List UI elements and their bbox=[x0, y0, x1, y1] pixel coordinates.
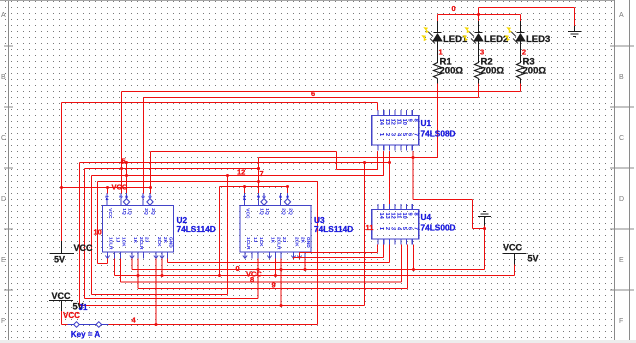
svg-text:1CLR: 1CLR bbox=[108, 237, 114, 250]
net label 12 bbox=[237, 168, 245, 177]
svg-text:1: 1 bbox=[439, 48, 443, 57]
svg-text:12: 12 bbox=[390, 119, 396, 125]
svg-text:14: 14 bbox=[378, 119, 384, 126]
IC U4 74LS00D bbox=[372, 204, 456, 244]
svg-text:F: F bbox=[619, 318, 623, 325]
net label 9 bbox=[272, 281, 276, 290]
svg-text:1Q: 1Q bbox=[121, 208, 127, 215]
switch J1 bbox=[62, 303, 109, 339]
svg-text:J1: J1 bbox=[79, 303, 88, 312]
svg-text:1CLR: 1CLR bbox=[245, 237, 251, 250]
net label 0 (bottom) bbox=[236, 264, 240, 273]
svg-text:U1: U1 bbox=[421, 118, 432, 128]
resistor R1 bbox=[434, 57, 464, 85]
power VCC3 (switch supply) bbox=[49, 291, 84, 325]
svg-text:10: 10 bbox=[94, 228, 102, 237]
svg-text:2J: 2J bbox=[281, 237, 287, 243]
wire net 6 (R3 to U2 clock) bbox=[122, 84, 521, 195]
svg-text:13: 13 bbox=[384, 119, 390, 125]
svg-text:1Q: 1Q bbox=[259, 208, 265, 215]
svg-text:3: 3 bbox=[390, 133, 396, 136]
svg-text:2J: 2J bbox=[144, 237, 150, 243]
net label 0 bbox=[452, 4, 456, 13]
IC U2 74LS114D bbox=[103, 193, 216, 259]
svg-text:A: A bbox=[1, 12, 6, 19]
wire net 0 ground rail (bottom) bbox=[132, 245, 485, 308]
svg-text:11: 11 bbox=[395, 213, 401, 219]
svg-text:GND: GND bbox=[168, 237, 174, 248]
wire U4 pin1 to U3 output bbox=[300, 245, 378, 259]
svg-text:2CLR: 2CLR bbox=[138, 237, 144, 250]
wire net 5 drop to U2 pin branch bbox=[364, 163, 366, 306]
svg-text:14: 14 bbox=[242, 196, 247, 201]
wire net 12 bbox=[85, 167, 261, 299]
svg-text:2K: 2K bbox=[300, 237, 306, 244]
net label 8 bbox=[250, 275, 254, 284]
ground GND1 bbox=[568, 26, 581, 37]
IC U1 74LS08D bbox=[372, 110, 456, 150]
svg-text:11: 11 bbox=[395, 119, 401, 125]
wire net 7 (R1 down to mid line) bbox=[257, 84, 438, 195]
svg-text:74LS114D: 74LS114D bbox=[177, 224, 216, 234]
svg-text:A: A bbox=[619, 12, 624, 19]
svg-text:7: 7 bbox=[412, 227, 418, 230]
power VCC1 5V bbox=[50, 241, 94, 265]
svg-text:7: 7 bbox=[412, 133, 418, 136]
wire VCC branch to U2 pins bbox=[62, 152, 153, 195]
svg-text:D: D bbox=[1, 196, 6, 203]
wire U4 pin2 to U3 output bbox=[294, 245, 384, 259]
svg-text:2Q: 2Q bbox=[288, 208, 294, 215]
svg-text:14: 14 bbox=[378, 213, 384, 220]
net label 2 bbox=[522, 48, 526, 57]
svg-text:2Q: 2Q bbox=[150, 208, 156, 215]
svg-text:3: 3 bbox=[480, 48, 484, 57]
wire feedback line C bbox=[80, 305, 365, 307]
svg-text:VCC: VCC bbox=[112, 183, 128, 192]
wire net 4 upper branch bbox=[98, 180, 318, 325]
svg-text:2CK: 2CK bbox=[294, 237, 300, 247]
svg-text:1: 1 bbox=[378, 133, 384, 136]
svg-text:2: 2 bbox=[384, 227, 390, 230]
wire net 0 (LED anode rail to ground) bbox=[438, 8, 575, 27]
wire feedback line A bbox=[92, 294, 228, 296]
svg-text:74LS114D: 74LS114D bbox=[314, 224, 353, 234]
svg-text:2: 2 bbox=[522, 48, 526, 57]
svg-text:C: C bbox=[1, 135, 6, 142]
svg-text:74LS08D: 74LS08D bbox=[421, 129, 456, 139]
svg-text:B: B bbox=[1, 74, 6, 81]
svg-text:D: D bbox=[619, 196, 624, 203]
ground GND2 bbox=[478, 212, 491, 270]
wire net 5 (long line to U1 pin3) bbox=[80, 151, 392, 305]
svg-text:200Ω: 200Ω bbox=[481, 66, 505, 77]
resistor R2 bbox=[475, 57, 505, 85]
svg-text:1K: 1K bbox=[132, 237, 138, 244]
svg-text:14: 14 bbox=[105, 196, 110, 201]
svg-text:11: 11 bbox=[366, 223, 374, 232]
wire VCC branch to U3 pins bbox=[220, 185, 290, 276]
svg-text:8: 8 bbox=[412, 119, 418, 122]
wire U4 pin3 to U2 output bbox=[168, 245, 390, 263]
svg-text:1J: 1J bbox=[252, 237, 258, 243]
svg-text:VCC: VCC bbox=[107, 208, 113, 219]
svg-text:10: 10 bbox=[401, 213, 407, 219]
svg-text:3: 3 bbox=[390, 227, 396, 230]
net label 11 bbox=[366, 223, 374, 232]
svg-text:5: 5 bbox=[122, 157, 126, 166]
svg-text:5V: 5V bbox=[528, 254, 539, 264]
svg-text:2CLR: 2CLR bbox=[276, 237, 282, 250]
svg-text:5: 5 bbox=[401, 227, 407, 230]
net label 5 bbox=[122, 157, 126, 166]
svg-text:VCC: VCC bbox=[246, 270, 262, 279]
svg-text:0: 0 bbox=[452, 4, 456, 13]
svg-text:1CK: 1CK bbox=[121, 237, 127, 247]
wire net 4 (switch output) bbox=[109, 258, 318, 326]
svg-text:LED3: LED3 bbox=[526, 34, 550, 45]
svg-text:GND: GND bbox=[305, 237, 311, 248]
svg-text:2Q: 2Q bbox=[281, 208, 287, 215]
net label 10 bbox=[94, 228, 102, 237]
net label 6 bbox=[311, 89, 315, 98]
svg-text:200Ω: 200Ω bbox=[523, 66, 547, 77]
svg-text:F: F bbox=[1, 318, 5, 325]
svg-text:B: B bbox=[619, 74, 624, 81]
svg-text:7: 7 bbox=[260, 169, 264, 178]
svg-text:2CK: 2CK bbox=[156, 237, 162, 247]
svg-text:C: C bbox=[619, 135, 624, 142]
svg-text:1J: 1J bbox=[115, 237, 121, 243]
svg-text:5V: 5V bbox=[54, 255, 65, 265]
wire net 8 line bbox=[121, 245, 402, 283]
svg-text:2Q: 2Q bbox=[143, 208, 149, 215]
wire R2 to U2 clock bbox=[144, 84, 479, 195]
svg-text:6: 6 bbox=[407, 227, 413, 230]
svg-text:12: 12 bbox=[390, 213, 396, 219]
net label VCC (bottom) bbox=[246, 270, 262, 279]
svg-text:1Q: 1Q bbox=[264, 208, 270, 215]
svg-text:E: E bbox=[619, 257, 624, 264]
svg-text:8: 8 bbox=[412, 213, 418, 216]
net label 1 bbox=[439, 48, 443, 57]
net label 7 bbox=[260, 169, 264, 178]
svg-text:5: 5 bbox=[401, 133, 407, 136]
svg-text:1Q: 1Q bbox=[127, 208, 133, 215]
svg-text:VCC: VCC bbox=[74, 243, 94, 253]
svg-text:74LS00D: 74LS00D bbox=[421, 223, 456, 233]
svg-text:2K: 2K bbox=[162, 237, 168, 244]
wire feedback line B bbox=[85, 298, 259, 300]
svg-text:2: 2 bbox=[384, 133, 390, 136]
IC U3 74LS114D bbox=[240, 193, 353, 259]
wire VCC rail (bottom) bbox=[115, 258, 515, 277]
svg-text:E: E bbox=[1, 257, 6, 264]
net label VCC (switch) bbox=[63, 311, 80, 320]
svg-text:1CK: 1CK bbox=[258, 237, 264, 247]
svg-text:Key = A: Key = A bbox=[71, 330, 100, 339]
svg-text:9: 9 bbox=[407, 119, 413, 122]
power VCC2 5V bbox=[135, 243, 539, 276]
wire U1 pin7 to ground rail bbox=[412, 151, 485, 228]
svg-text:13: 13 bbox=[384, 213, 390, 219]
wire U2 pin1 feedback bbox=[98, 258, 108, 263]
svg-text:1: 1 bbox=[378, 227, 384, 230]
svg-text:VCC: VCC bbox=[63, 311, 80, 320]
svg-text:VCC: VCC bbox=[52, 291, 72, 301]
LED LED2 bbox=[462, 15, 508, 64]
LED LED1 bbox=[421, 15, 468, 64]
svg-text:U4: U4 bbox=[421, 212, 432, 222]
svg-text:9: 9 bbox=[407, 213, 413, 216]
svg-text:6: 6 bbox=[311, 89, 315, 98]
net label 3 bbox=[480, 48, 484, 57]
svg-text:10: 10 bbox=[401, 119, 407, 125]
svg-text:6: 6 bbox=[407, 133, 413, 136]
wire net 9 line bbox=[138, 245, 408, 289]
net label VCC (U2) bbox=[112, 183, 128, 192]
resistor R3 bbox=[517, 57, 547, 85]
wire net U2pin5 to U1 pin1 bbox=[151, 151, 378, 187]
LED LED3 bbox=[504, 15, 550, 64]
svg-text:0: 0 bbox=[236, 264, 240, 273]
net label 4 bbox=[132, 316, 137, 325]
svg-text:1K: 1K bbox=[270, 237, 276, 244]
wire net to U1 pin2 bbox=[92, 151, 384, 294]
svg-text:VCC: VCC bbox=[503, 243, 523, 253]
svg-text:200Ω: 200Ω bbox=[440, 66, 464, 77]
svg-text:LED2: LED2 bbox=[484, 34, 508, 45]
wire VCC rail left (to U1 pin) bbox=[60, 103, 378, 242]
